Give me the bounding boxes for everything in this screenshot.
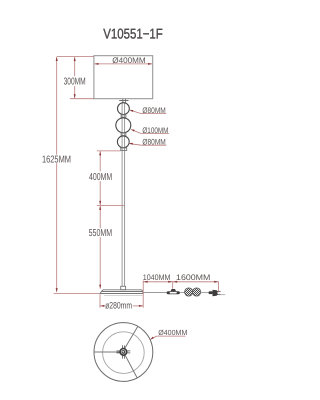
dimension Ø280mm (base) [100,294,143,310]
top view: outer circle (shade Ø400) [94,323,153,382]
base (side view) [100,290,143,296]
cord from base to switch [143,292,166,294]
svg-text:1600MM: 1600MM [176,273,211,282]
svg-text:1040MM: 1040MM [143,273,171,282]
sphere 3 (Ø80) [117,136,129,148]
coiled cord [185,288,201,296]
svg-text:V10551−1F: V10551−1F [103,27,163,43]
spoke down-right [125,355,137,378]
label Ø100MM (sphere 2) [131,126,169,135]
lamp shade (side view) [94,56,153,99]
svg-text:550MM: 550MM [89,228,113,239]
plug [209,290,226,297]
label Ø80MM (sphere 3) [129,138,167,147]
sphere 2 (Ø100) [116,118,131,133]
collar between sphere2 and sphere3 [121,133,126,136]
svg-text:300MM: 300MM [64,77,86,88]
svg-text:400MM: 400MM [89,172,112,183]
svg-text:Ø400MM: Ø400MM [112,56,146,65]
svg-text:ø280mm: ø280mm [105,299,132,310]
cord coils to plug [201,292,210,294]
dimension 400MM (upper pole) [89,151,121,205]
svg-text:1625MM: 1625MM [42,154,71,165]
sphere 1 (Ø80) [118,103,130,115]
dimension 300MM (shade height) [64,57,94,99]
label Ø400MM (top view) [150,328,187,340]
dimension Ø400MM (shade width) [94,56,152,65]
hub (socket) [117,345,131,358]
switch [167,289,180,294]
dimension 1625MM (total height) [42,57,100,294]
pole flange at base [121,286,126,289]
spoke left [94,351,120,353]
label Ø80MM (sphere 1) [129,106,166,115]
cord switch to coils [180,292,185,294]
collar below sphere 3 [121,148,127,151]
pole (upper, through spheres) [122,103,125,287]
spoke up-right [125,326,138,348]
dimension 1040MM / 1600MM (cord) [143,273,219,308]
neck under shade [119,99,128,104]
extension line at 400/550 boundary [97,204,125,206]
top view: inner circle [103,332,145,374]
dimension 550MM (lower pole) [89,206,113,289]
collar between sphere1 and sphere2 [121,115,126,117]
